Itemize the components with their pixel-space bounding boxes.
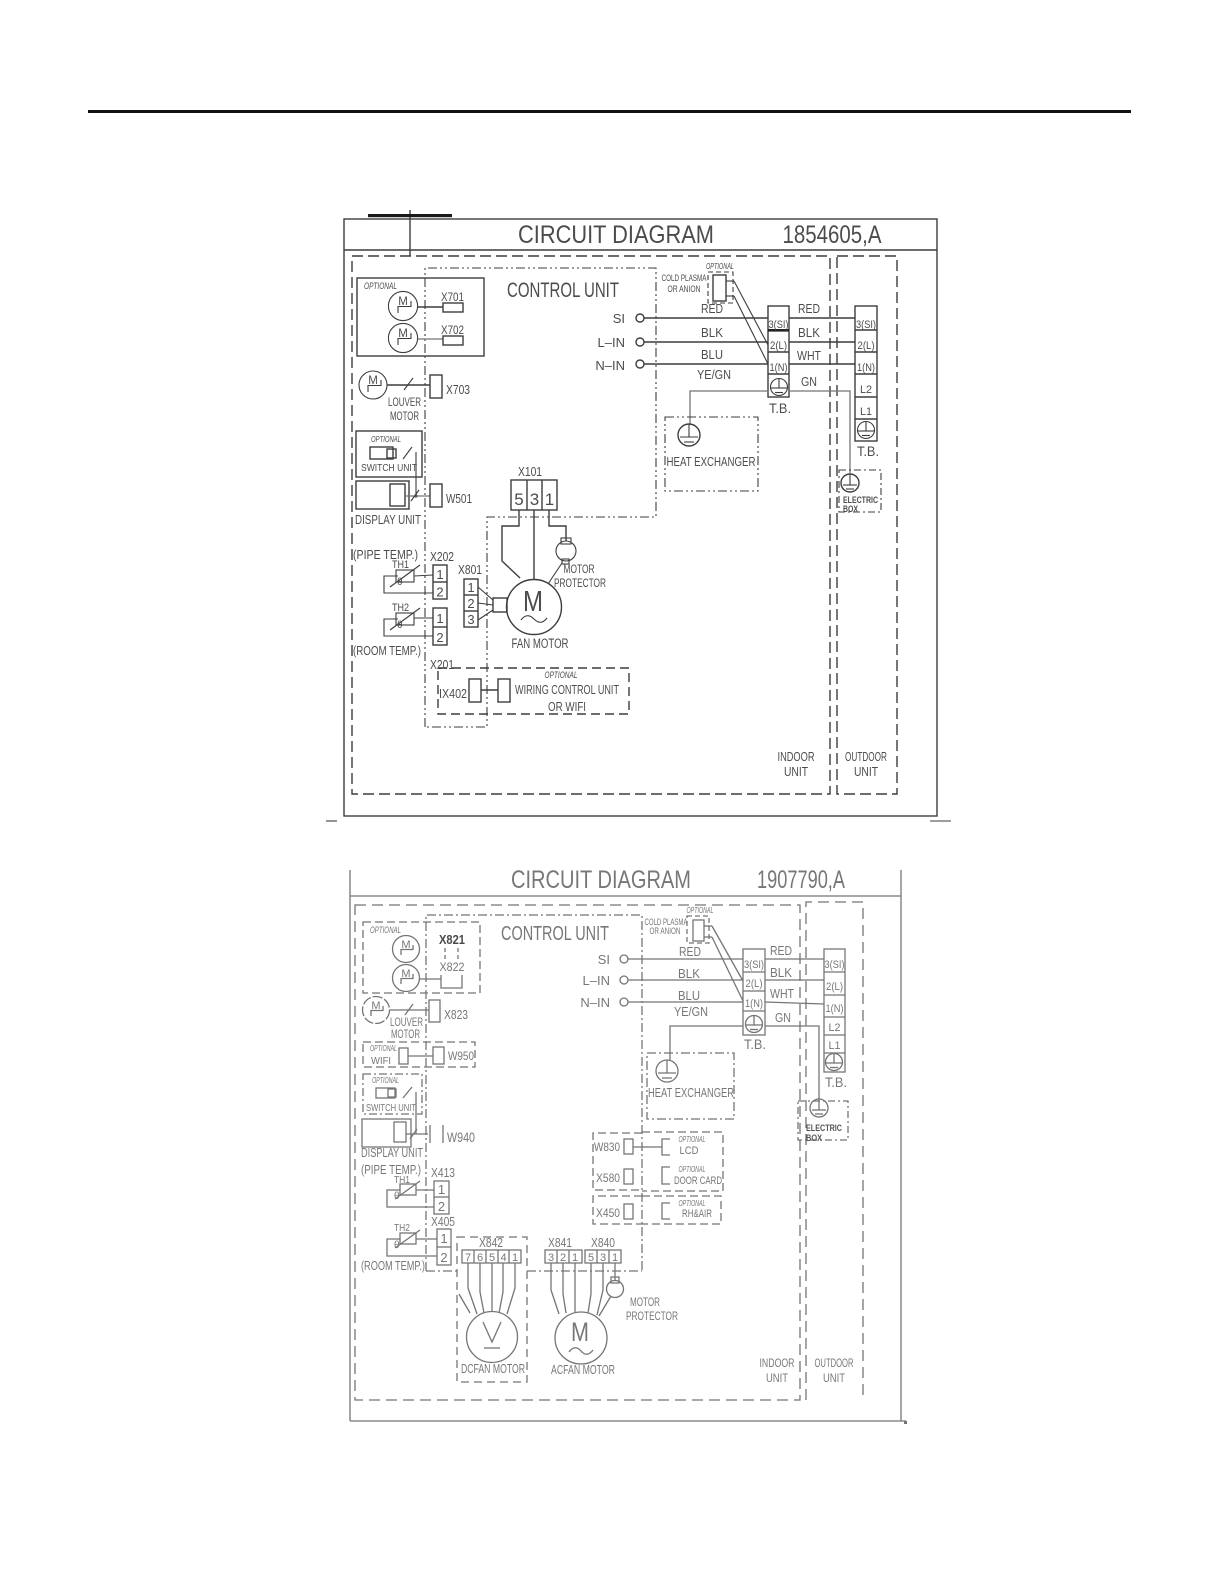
svg-text:X822: X822 [440,960,465,974]
svg-text:GN: GN [801,375,817,389]
frame bottom tick marks (top diagram) [326,820,951,822]
connector X822 [419,960,465,988]
svg-text:RED: RED [701,302,723,316]
ground terminal indoor T.B. (top) [771,379,788,396]
svg-text:OPTIONAL: OPTIONAL [545,670,578,680]
RH&AIR module [662,1199,712,1220]
svg-text:YE/GN: YE/GN [674,1005,708,1019]
ground heat exchanger (bottom) [656,1060,678,1082]
svg-text:OPTIONAL: OPTIONAL [679,1135,706,1144]
svg-text:X702: X702 [441,323,464,337]
wire L-IN to T.B. (bottom) [628,979,743,981]
svg-text:7: 7 [465,1252,471,1264]
svg-text:3(SI): 3(SI) [769,319,789,331]
svg-text:OR ANION: OR ANION [650,926,681,936]
svg-text:SWITCH UNIT: SWITCH UNIT [366,1103,416,1114]
svg-text:X842: X842 [479,1236,503,1250]
bottom diagram frame [350,870,906,1421]
svg-text:OR ANION: OR ANION [668,284,701,295]
svg-text:LOUVER: LOUVER [388,395,421,409]
svg-text:MOTOR: MOTOR [630,1295,660,1309]
svg-text:RED: RED [798,302,820,316]
electric box label (bottom) [806,1123,842,1144]
svg-text:N–IN: N–IN [595,358,625,373]
svg-text:WIRING CONTROL UNIT: WIRING CONTROL UNIT [515,682,619,697]
svg-text:INDOOR: INDOOR [778,749,815,764]
svg-text:W950: W950 [448,1049,474,1063]
wire X841 pin2 to acfan motor [563,1263,566,1313]
svg-text:1: 1 [438,1182,445,1197]
control unit boundary U2 (bottom) [426,915,642,1271]
svg-text:3: 3 [530,490,539,509]
motor M (step motor 2, bottom) [393,965,420,992]
cold plasma / or anion label (bottom) [645,917,688,936]
wire GN indoor to electric box (bottom) [765,1011,819,1099]
svg-text:X823: X823 [444,1008,468,1022]
svg-text:UNIT: UNIT [854,764,878,779]
wire BLK indoor to outdoor (bottom) [765,966,824,980]
wifi optional box (bottom) [363,1042,475,1067]
svg-text:CONTROL UNIT: CONTROL UNIT [507,279,619,302]
svg-text:PROTECTOR: PROTECTOR [626,1309,678,1323]
svg-text:X703: X703 [446,383,470,397]
svg-text:UNIT: UNIT [784,764,808,779]
svg-text:W501: W501 [446,492,472,506]
svg-text:OPTIONAL: OPTIONAL [371,434,401,444]
svg-text:3: 3 [548,1252,554,1264]
svg-text:UNIT: UNIT [823,1371,846,1385]
connector X701 [418,290,464,312]
svg-text:CIRCUIT DIAGRAM: CIRCUIT DIAGRAM [511,866,691,894]
terminal block T.B. indoor (top) [768,306,789,397]
page top horizontal rule [88,110,1131,113]
top diagram frame [344,210,937,816]
svg-text:L2: L2 [829,1022,841,1034]
svg-text:L–IN: L–IN [583,973,610,988]
thermistor TH2 [384,602,433,636]
wire X842 pin5 to dcfan motor [491,1263,493,1312]
outdoor unit label (top) [845,749,887,779]
wire X101 pin5 to fan motor [502,510,520,578]
thermistor TH2 (bottom) [387,1222,437,1256]
svg-text:X841: X841 [548,1236,572,1250]
svg-text:X701: X701 [441,290,464,304]
ground electric box (bottom) [810,1099,828,1117]
svg-text:BLK: BLK [701,326,724,340]
node SI (bottom) [598,952,628,967]
wire switch unit to display wire (bottom) [415,1092,417,1134]
svg-text:5: 5 [489,1252,495,1264]
svg-text:RED: RED [770,944,792,958]
svg-text:T.B.: T.B. [825,1074,847,1090]
wire louver motor to X823 [390,1004,429,1015]
connector X801 [464,579,478,627]
svg-text:HEAT EXCHANGER: HEAT EXCHANGER [667,455,756,469]
svg-text:IX402: IX402 [439,687,467,701]
node N-IN [595,358,644,373]
wire cold plasma to T.B. 1(N) [734,296,768,364]
motor protector (bottom) [607,1277,624,1298]
svg-text:5: 5 [588,1252,594,1264]
svg-text:X202: X202 [430,550,454,564]
wire SI to T.B. (bottom) [628,958,743,960]
connector W940 [430,1125,475,1145]
svg-text:BLK: BLK [770,966,793,980]
indoor unit label (bottom) [760,1356,795,1385]
indoor unit boundary (top) [352,256,830,794]
wire W830 to LCD [633,1146,662,1148]
connector X821 (dashed, not fitted) [445,948,458,960]
wifi module [371,1048,408,1067]
wire X840 pin3 to acfan motor [597,1263,603,1315]
connector IX402 [439,679,510,702]
svg-text:CONTROL UNIT: CONTROL UNIT [501,923,609,945]
ground electric box (top) [841,474,859,492]
svg-text:1(N): 1(N) [745,998,763,1010]
wire RED indoor to outdoor [789,302,855,318]
svg-text:1(N): 1(N) [826,1003,844,1015]
wire X841 pin3 to acfan motor [551,1263,559,1314]
outdoor unit boundary (top) [837,256,897,794]
node SI [613,311,644,326]
cold plasma connector (bottom) [687,916,712,943]
svg-text:3: 3 [467,612,474,627]
svg-text:2(L): 2(L) [746,978,763,990]
wire motor protector to fan motor [548,563,562,584]
electric box (top) [839,470,881,512]
wiring control unit label [515,682,619,714]
svg-text:OPTIONAL: OPTIONAL [706,261,734,271]
louver motor M (top) [359,371,387,399]
svg-text:1(N): 1(N) [857,362,875,374]
svg-text:INDOOR: INDOOR [760,1356,795,1370]
wire display unit to W940 [406,1129,428,1139]
fan motor shaft block (top) [493,598,507,612]
svg-text:2: 2 [560,1252,566,1264]
connector X823 [429,1000,468,1022]
svg-text:T.B.: T.B. [744,1036,766,1052]
connector X413 [434,1181,449,1214]
svg-text:MOTOR: MOTOR [391,1027,420,1041]
svg-text:OPTIONAL: OPTIONAL [687,906,714,915]
connector X840 [585,1250,621,1264]
svg-text:X450: X450 [596,1208,620,1220]
svg-text:TH2: TH2 [394,1222,410,1234]
svg-text:OPTIONAL: OPTIONAL [370,1044,397,1053]
connector X702 [418,323,464,345]
svg-text:RH&AIR: RH&AIR [682,1208,712,1220]
switch unit box (bottom) [363,1074,422,1114]
svg-text:L2: L2 [860,384,872,396]
svg-text:1: 1 [436,611,443,626]
thermistor TH1 [384,559,433,593]
svg-text:2(L): 2(L) [858,340,875,352]
svg-text:θ: θ [394,1240,400,1251]
svg-text:5: 5 [514,490,523,509]
wire N-IN to T.B. 1(N) [644,363,768,365]
svg-text:PROTECTOR: PROTECTOR [554,576,606,590]
svg-text:DISPLAY UNIT: DISPLAY UNIT [355,513,421,527]
svg-text:L1: L1 [860,406,872,418]
optional enclosure W830/X580 [593,1133,642,1190]
electric box label (top) [843,495,878,514]
svg-text:1: 1 [467,580,474,595]
connector W950 [433,1047,474,1064]
wire switch unit to display wire [414,452,417,498]
svg-text:X405: X405 [431,1215,455,1229]
louver motor M (bottom) [363,997,390,1024]
wire YE/GN to heat exchanger ground (bottom) [670,1026,743,1060]
svg-text:3(SI): 3(SI) [744,959,764,971]
display unit box (bottom) [362,1119,411,1147]
svg-text:W940: W940 [447,1130,475,1145]
svg-text:WIFI: WIFI [371,1056,391,1067]
svg-text:X821: X821 [439,932,465,947]
node N-IN (bottom) [580,995,628,1010]
fan motor M1 (top) [507,580,562,635]
motor M (step motor 2, top) [388,323,417,352]
connector X101 [511,480,557,510]
svg-text:YE/GN: YE/GN [697,368,731,382]
wire BLK indoor to outdoor [789,326,855,342]
svg-text:1854605,A: 1854605,A [783,221,882,249]
svg-text:BOX: BOX [806,1133,823,1144]
wire X842 pin1 to dcfan motor [507,1263,515,1314]
svg-text:L1: L1 [829,1040,841,1052]
indoor unit label (top) [778,749,815,779]
control unit boundary U1 (top) [425,268,656,727]
terminal block T.B. indoor (bottom) [743,949,765,1035]
outdoor unit boundary (bottom) [806,902,863,1400]
connector X450 [596,1204,633,1220]
svg-text:MOTOR: MOTOR [390,409,419,423]
ground terminal outdoor T.B. (top) [858,422,875,439]
svg-text:OUTDOOR: OUTDOOR [845,749,887,764]
motor protector label (top) [554,562,606,590]
wire SI to T.B. 3(SI) [644,317,768,319]
louver motor label (bottom) [390,1015,423,1041]
svg-text:3: 3 [600,1252,606,1264]
wire YE/GN to heat exchanger ground [690,391,768,424]
svg-text:OUTDOOR: OUTDOOR [815,1356,854,1370]
svg-text:X840: X840 [591,1236,615,1250]
svg-text:X101: X101 [518,465,542,479]
louver motor label (top) [388,395,421,423]
wire X842 pin6 to dcfan motor [480,1263,484,1313]
node L-IN [598,335,644,350]
svg-text:1: 1 [545,490,554,509]
svg-text:T.B.: T.B. [857,443,879,459]
svg-text:DISPLAY UNIT: DISPLAY UNIT [361,1146,423,1160]
wire display unit to W501 [405,490,430,501]
connector X202 [433,565,447,600]
wire cold plasma to T.B. 2(L) [734,281,768,345]
svg-text:BOX: BOX [843,504,858,514]
svg-text:WHT: WHT [797,349,821,363]
svg-text:BLU: BLU [678,989,700,1003]
svg-text:GN: GN [775,1011,791,1025]
optional box LCD / DOOR CARD [642,1132,723,1191]
svg-text:2(L): 2(L) [826,981,843,993]
svg-text:6: 6 [477,1252,483,1264]
ground terminal outdoor T.B. (bottom) [826,1054,843,1071]
svg-text:OPTIONAL: OPTIONAL [679,1199,706,1208]
svg-text:X801: X801 [458,563,482,577]
svg-text:(PIPE TEMP.): (PIPE TEMP.) [361,1163,421,1177]
svg-text:(ROOM TEMP.): (ROOM TEMP.) [353,644,421,658]
svg-text:W830: W830 [594,1142,620,1154]
svg-text:BLK: BLK [798,326,821,340]
optional motor box (bottom) [363,922,480,993]
wire X801 pin1 to fan motor [478,587,493,600]
svg-text:OPTIONAL: OPTIONAL [372,1076,399,1085]
motor protector (top) [556,538,576,564]
wire X842 pin7 to dcfan motor [468,1263,477,1314]
wire X101 pin3 to fan motor [533,510,535,580]
svg-text:θ: θ [394,1191,400,1202]
switch symbol (top) [370,447,412,459]
node L-IN (bottom) [583,973,628,988]
svg-text:L–IN: L–IN [598,335,625,350]
acfan motor M (bottom) [555,1312,607,1364]
svg-text:RED: RED [679,945,701,959]
svg-text:1907790,A: 1907790,A [757,866,845,894]
wire N-IN to T.B. (bottom) [628,1001,743,1003]
connector X405 [437,1229,451,1265]
svg-text:1: 1 [436,567,443,582]
svg-text:MOTOR: MOTOR [564,562,595,576]
switch unit box (top) [356,431,422,477]
motor M (step motor 1, top) [388,291,417,320]
frame corner dot (bottom diagram) [904,1421,907,1424]
svg-text:2: 2 [436,585,443,600]
svg-text:OPTIONAL: OPTIONAL [679,1165,706,1174]
switch symbol (bottom) [376,1087,412,1098]
heat exchanger box (bottom) [647,1053,734,1119]
motor protector label (bottom) [626,1295,678,1323]
svg-text:LCD: LCD [680,1145,699,1157]
svg-text:N–IN: N–IN [580,995,610,1010]
svg-text:DCFAN MOTOR: DCFAN MOTOR [461,1362,525,1376]
wiring control unit optional box [438,668,629,714]
svg-text:OPTIONAL: OPTIONAL [364,281,397,291]
connector X841 [545,1250,582,1264]
svg-text:1: 1 [512,1252,518,1264]
svg-text:TH2: TH2 [392,602,409,614]
svg-text:OPTIONAL: OPTIONAL [370,925,401,935]
svg-text:4: 4 [500,1252,506,1264]
svg-text:2(L): 2(L) [770,340,787,352]
svg-text:θ: θ [397,620,403,631]
svg-text:1(N): 1(N) [770,362,788,374]
wire wifi to W950 [408,1055,433,1057]
svg-text:X413: X413 [431,1166,455,1180]
wire X842 pin4 to dcfan motor [499,1263,503,1313]
ground heat exchanger (top) [678,424,700,446]
wire X840 pin5 to acfan motor [588,1263,591,1313]
ground terminal indoor T.B. (bottom) [746,1016,763,1033]
wire X801 pin2 to fan motor [478,603,493,605]
stray lead dcfan motor [459,1294,470,1313]
dcfan motor M (bottom) [467,1312,518,1363]
cold plasma connector (top) [708,272,734,303]
connector X201 [433,608,447,645]
motor M (step motor 1, bottom) [393,936,420,963]
svg-text:DOOR CARD: DOOR CARD [674,1175,722,1187]
wire RED indoor to outdoor (bottom) [765,944,824,959]
wire GN indoor to electric box [789,375,850,473]
svg-text:θ: θ [397,577,403,588]
indoor unit boundary (bottom) [355,905,800,1400]
svg-text:CIRCUIT DIAGRAM: CIRCUIT DIAGRAM [518,221,714,249]
svg-text:T.B.: T.B. [769,400,791,416]
svg-text:X580: X580 [596,1173,620,1185]
svg-text:1: 1 [440,1231,447,1246]
optional enclosure X450 [593,1196,642,1224]
svg-text:OR WIFI: OR WIFI [548,699,586,714]
svg-text:3(SI): 3(SI) [856,319,876,331]
wire cold plasma to T.B. 1(N) (bottom) [712,937,743,1001]
connector X703 [430,375,470,398]
outdoor unit label (bottom) [815,1356,854,1385]
svg-text:ACFAN MOTOR: ACFAN MOTOR [551,1363,615,1377]
thermistor TH1 (bottom) [387,1174,434,1207]
wire WHT indoor to outdoor (bottom) [765,987,824,1004]
svg-text:M: M [571,1317,589,1347]
svg-text:2: 2 [438,1199,445,1214]
svg-text:FAN MOTOR: FAN MOTOR [512,636,569,651]
svg-text:UNIT: UNIT [766,1371,789,1385]
dcfan motor optional box [457,1237,527,1382]
svg-text:X201: X201 [430,658,454,672]
wire cold plasma to T.B. 2(L) (bottom) [712,926,743,981]
connector X842 [462,1250,521,1264]
svg-text:3(SI): 3(SI) [825,959,845,971]
svg-text:SI: SI [613,311,625,326]
svg-text:BLU: BLU [701,348,723,362]
wire motor protector to acfan motor (bottom) [599,1296,611,1316]
wire L-IN to T.B. 2(L) [644,341,768,343]
svg-text:2: 2 [467,596,474,611]
heat exchanger box (top) [665,417,758,491]
electric box (bottom) [798,1101,848,1140]
svg-text:1: 1 [572,1252,578,1264]
svg-text:M: M [523,586,543,618]
svg-text:2: 2 [440,1250,447,1265]
svg-text:1: 1 [612,1252,618,1264]
svg-text:BLK: BLK [678,967,701,981]
DOOR CARD module [662,1165,722,1187]
terminal block T.B. outdoor (top) [855,306,877,441]
svg-text:TH1: TH1 [392,559,409,571]
wire WHT indoor to outdoor [789,349,855,364]
svg-text:WHT: WHT [770,987,794,1001]
wire X840 pin1 to motor protector (bottom) [614,1263,616,1280]
wire X801 pin3 to fan motor [478,610,493,620]
svg-text:SI: SI [598,952,610,967]
terminal block T.B. outdoor (bottom) [824,949,845,1072]
svg-text:2: 2 [436,630,443,645]
svg-text:HEAT EXCHANGER: HEAT EXCHANGER [648,1086,734,1100]
wire X841 pin1 to acfan motor [574,1263,576,1312]
svg-text:COLD PLASMA: COLD PLASMA [662,273,707,284]
svg-text:(ROOM TEMP.): (ROOM TEMP.) [361,1259,425,1273]
display unit box (top) [356,481,409,509]
svg-text:SWITCH UNIT: SWITCH UNIT [361,462,417,474]
connector X580 [596,1169,633,1185]
LCD module [662,1135,706,1157]
connector W830 [594,1139,633,1154]
